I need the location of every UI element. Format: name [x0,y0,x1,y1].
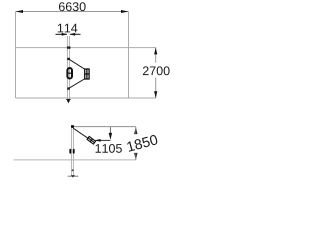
wire floor line [14,159,136,161]
node beam top vertex [67,58,70,60]
arrow down 2700 [154,91,157,98]
arrow right 6630 [121,10,129,13]
label 1850 [126,134,158,152]
wire right extension line [128,12,130,99]
label 1105 [96,144,122,153]
node tick at wall [67,46,70,48]
dimension 1105 drop arrow [109,127,111,133]
dimension 1105 arrow left [95,139,110,141]
node mount vertex [71,125,74,128]
node small dot below floor [72,169,74,171]
label 114 [58,24,78,33]
dimension 114 right arrow [70,33,81,35]
wire beam lower diagonal [69,79,85,88]
label 2700 [143,66,170,75]
wire left extension line [15,12,17,99]
wire beam upper diagonal [69,59,85,69]
projector side-view symbol rotated [87,136,96,144]
wire wall top line [16,47,157,49]
dimension line 2700 [155,48,157,63]
wire wall bottom line [16,97,157,99]
grommet side symbol [69,150,71,153]
wire mount diagonal [73,128,88,138]
node beam bottom vertex [67,87,70,89]
wire mount drop line a [70,128,72,176]
node screen centerline [66,36,68,102]
arrow down at wall bottom [66,98,71,100]
grommet symbol [67,68,72,79]
dimension line 1850 arrows [134,127,137,134]
floor anchor mark [68,175,79,177]
node lens centerline [68,36,70,102]
dimension line 6630 [16,11,129,13]
arrow left 6630 [16,10,24,13]
wire ceiling line bottom figure [72,126,136,128]
wire mount drop line b [72,128,74,176]
arrow up 2700 [154,48,157,55]
projector top-view symbol [85,69,89,79]
dimension 114 left arrow [56,33,67,35]
label 6630 [59,2,86,11]
